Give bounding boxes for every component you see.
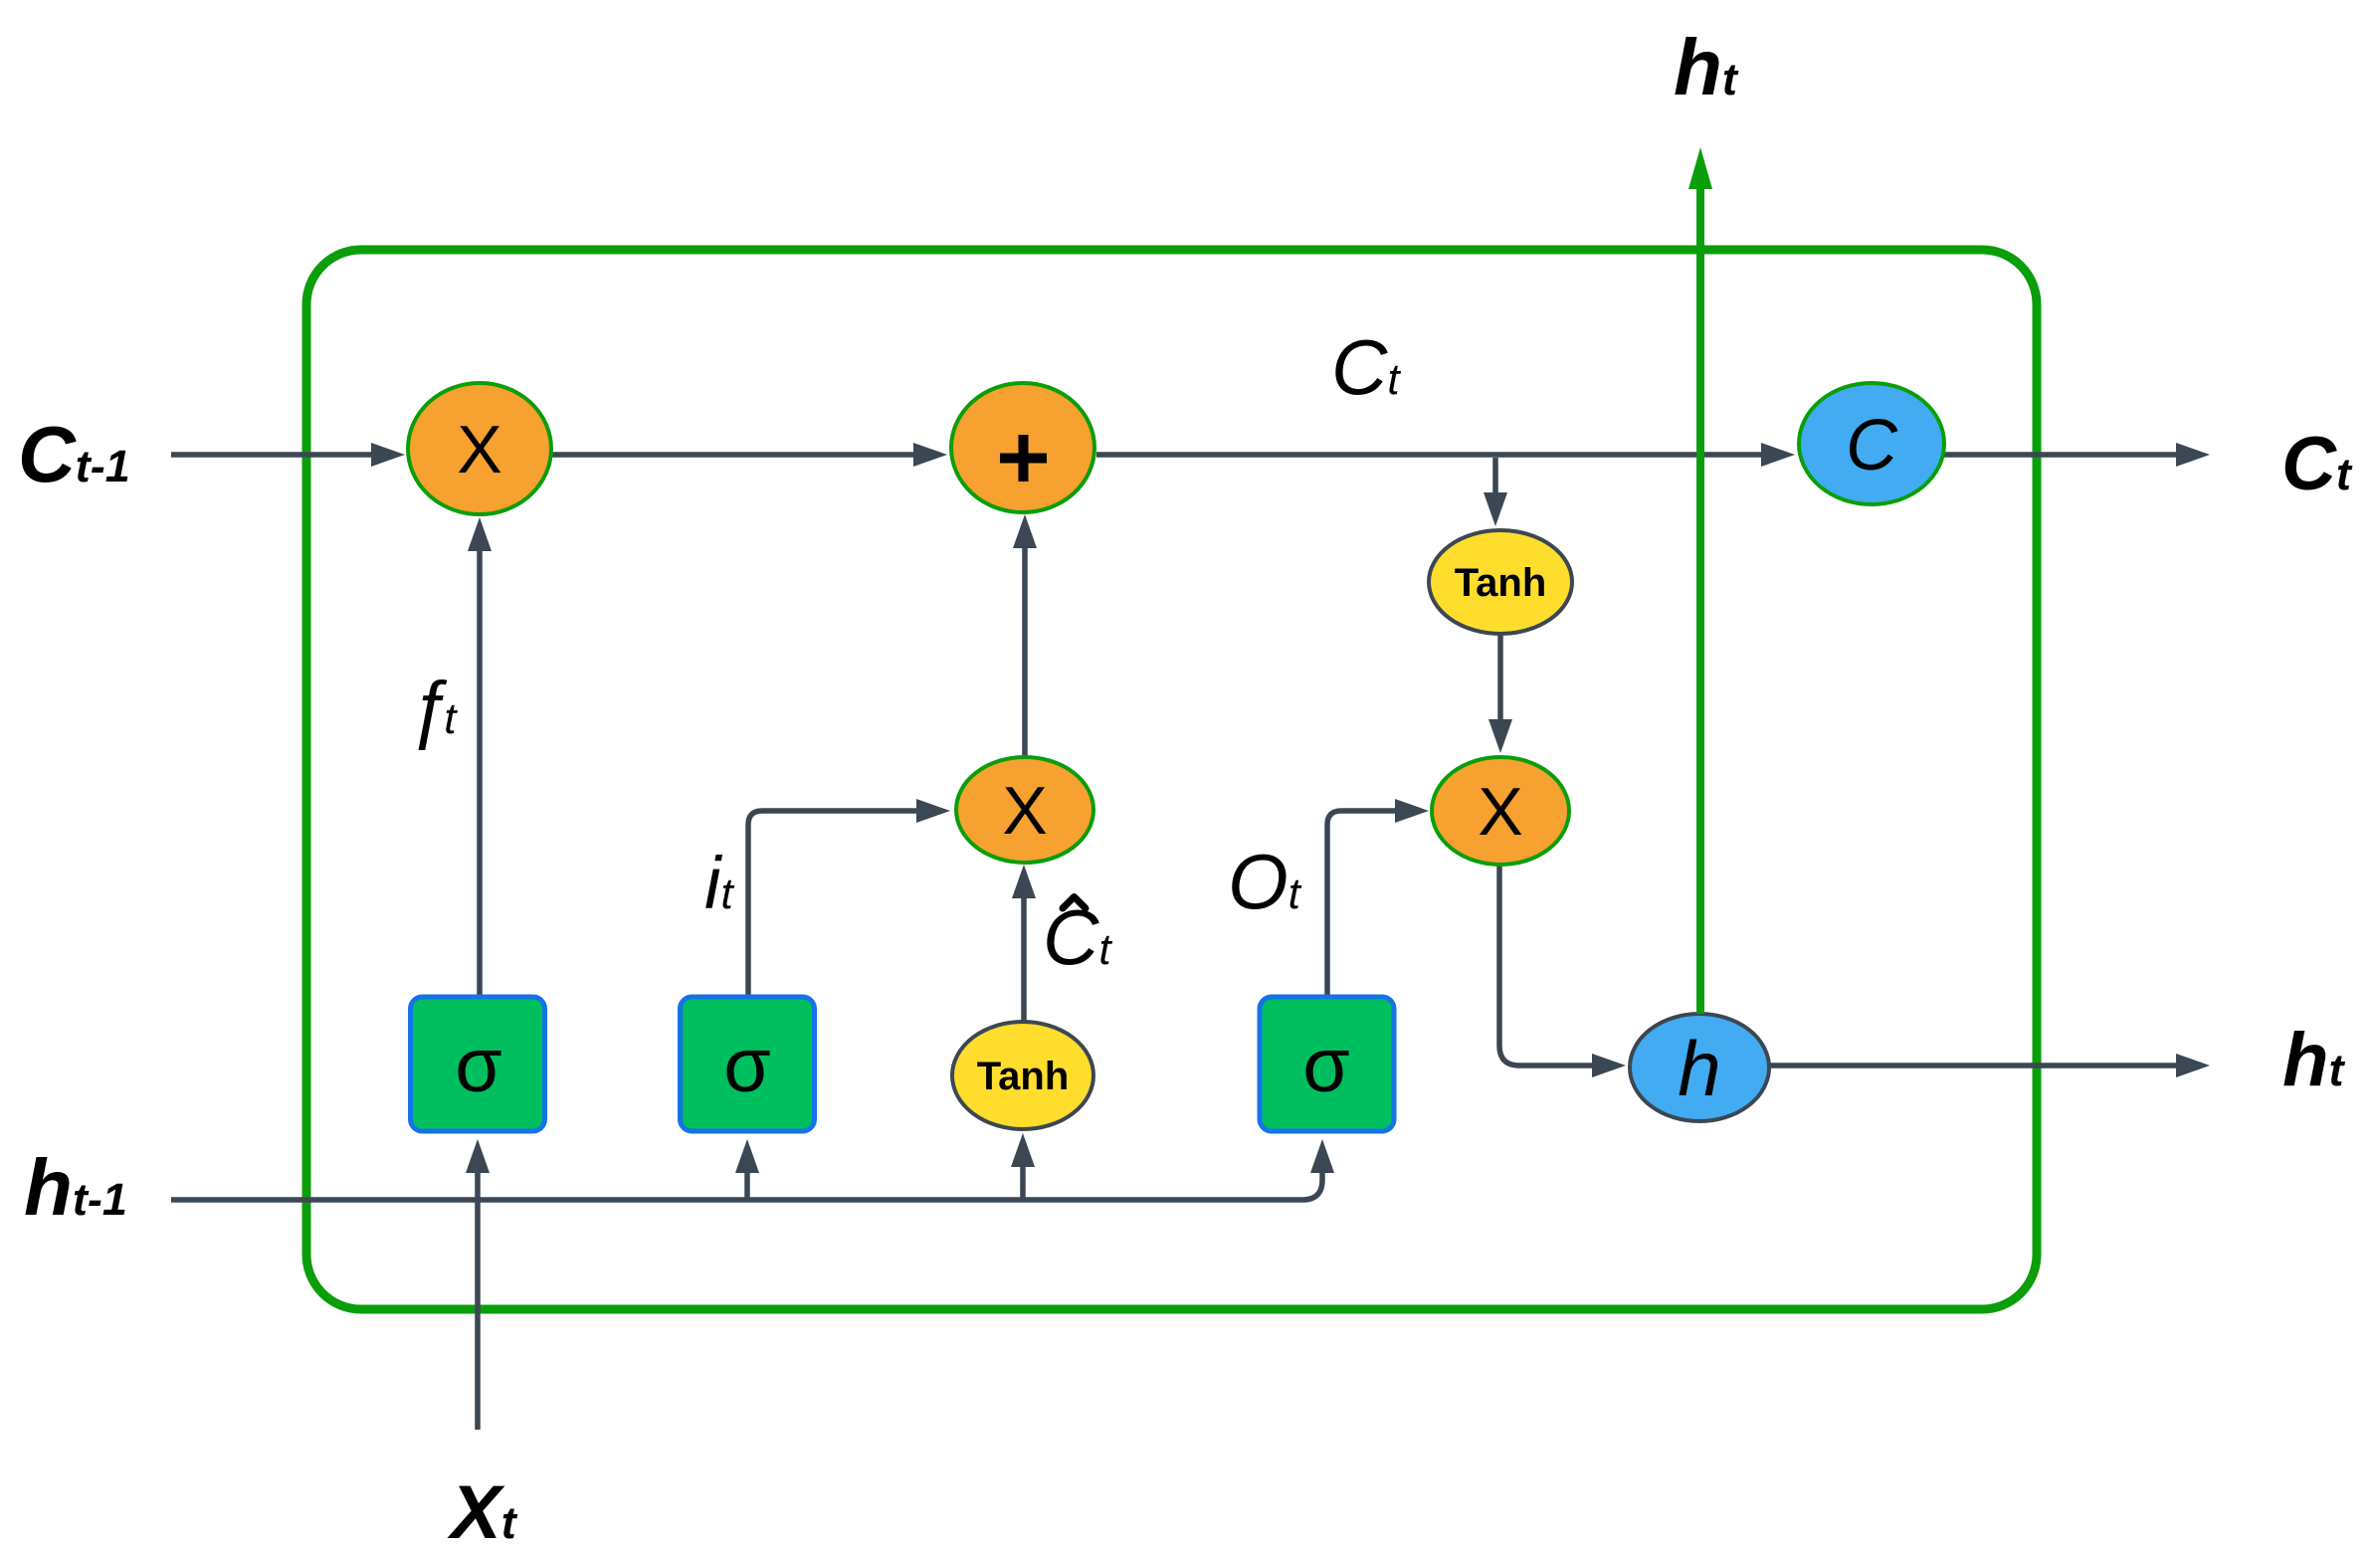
- svg-text:σ: σ: [723, 1023, 771, 1108]
- wire C to Ct output: [1944, 452, 2176, 458]
- hidden state node h: [1630, 1014, 1769, 1121]
- green ht output arrow: [1696, 189, 1704, 1014]
- wire h to ht output: [1769, 1063, 2176, 1068]
- sigma1 (forget gate): [411, 997, 545, 1131]
- sigma3 (output gate): [1260, 997, 1394, 1131]
- svg-text:X: X: [1478, 774, 1522, 850]
- wire it elbow sigma2 to X2: [748, 811, 916, 995]
- multiply gate X1: [408, 383, 551, 514]
- sigma2 (input gate): [681, 997, 815, 1131]
- multiply gate X3: [1432, 757, 1569, 865]
- wire Tanh1 to X3: [1497, 634, 1503, 719]
- wire Ct-hat Tanh2 to X2: [1021, 898, 1027, 1023]
- svg-text:h: h: [1678, 1025, 1720, 1112]
- add gate plus: [951, 383, 1094, 512]
- wire Ct-1 input to X1: [171, 452, 371, 458]
- wire plus to C: [1096, 452, 1761, 458]
- svg-text:Tanh: Tanh: [1455, 561, 1547, 605]
- wire Ot elbow sigma3 to X3: [1327, 811, 1395, 995]
- svg-text:C: C: [1846, 406, 1898, 485]
- wire ft sigma1 to X1: [477, 551, 483, 995]
- Tanh1 (cell output activation): [1429, 530, 1572, 634]
- cell state node C: [1799, 383, 1944, 504]
- svg-text:X: X: [1002, 773, 1047, 849]
- wire X2 to plus: [1022, 548, 1028, 757]
- wire ht-1 input to sigma3: [171, 1173, 1322, 1200]
- wire X1 to plus: [551, 452, 913, 458]
- multiply gate X2: [956, 757, 1093, 863]
- svg-text:σ: σ: [455, 1023, 502, 1108]
- wire X3 to h elbow: [1499, 865, 1592, 1066]
- svg-text:Tanh: Tanh: [977, 1055, 1070, 1098]
- LSTM cell boundary (green rounded box): [306, 250, 2037, 1309]
- svg-text:σ: σ: [1302, 1023, 1350, 1108]
- svg-text:X: X: [457, 412, 501, 487]
- Tanh2 (candidate activation): [952, 1022, 1093, 1129]
- wire ht-1 branch to sigma2: [744, 1173, 750, 1200]
- wire ht-1 branch to Tanh2: [1020, 1167, 1026, 1200]
- wire branch down to Tanh1: [1492, 458, 1498, 492]
- wire Xt input to sigma1: [475, 1173, 481, 1430]
